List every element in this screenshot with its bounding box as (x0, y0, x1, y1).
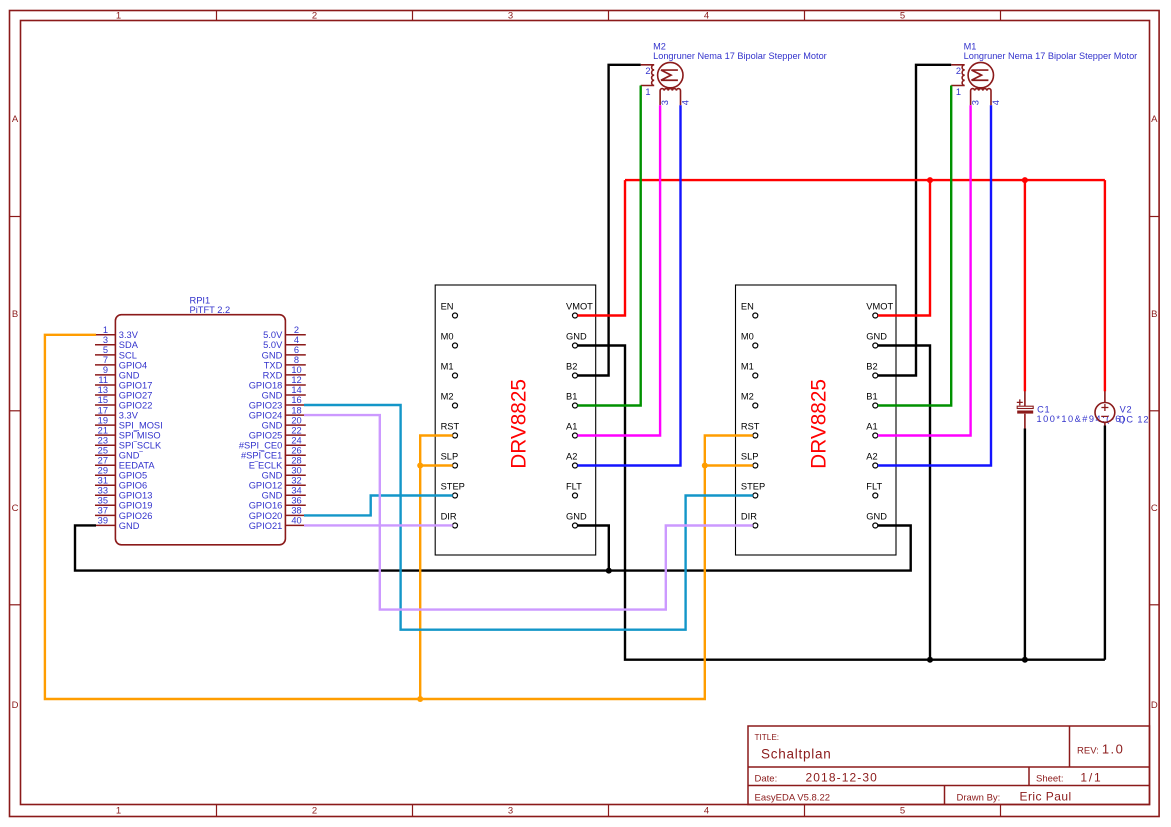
svg-text:32: 32 (291, 476, 301, 486)
wire black M2 pin2 to U1 B2 (578, 65, 641, 376)
junction GND net (606, 568, 612, 574)
svg-text:GPIO17: GPIO17 (119, 380, 153, 390)
svg-text:29: 29 (98, 465, 108, 475)
svg-text:38: 38 (291, 506, 301, 516)
voltage source V2 plus sign (1101, 404, 1108, 411)
IC U1 right pin circles (573, 313, 578, 528)
svg-text:1: 1 (116, 806, 121, 817)
junction GND rail at C1 drop (1022, 657, 1028, 663)
svg-text:7: 7 (103, 355, 108, 365)
frame row ticks (10, 217, 1160, 605)
svg-text:GND: GND (866, 512, 887, 522)
motor M1 winding B coil (971, 89, 991, 106)
svg-text:RXD: RXD (263, 370, 283, 380)
svg-text:12: 12 (291, 375, 301, 385)
svg-text:31: 31 (98, 476, 108, 486)
svg-text:A: A (12, 114, 19, 125)
svg-text:M1: M1 (741, 362, 754, 372)
svg-text:3: 3 (508, 806, 513, 817)
wire orange U1 riser to RST (420, 436, 453, 700)
wire magenta M1 pin3 to U2 A1 (878, 105, 971, 435)
wire black M1 pin2 to U2 B2 (878, 65, 951, 376)
svg-text:9: 9 (103, 365, 108, 375)
wire black U2 GND2 to bottom GND rail (878, 346, 930, 660)
svg-text:33: 33 (98, 486, 108, 496)
IC U2 left pin circles (753, 313, 758, 528)
junction orange at U1 SLP branch (417, 463, 423, 469)
wire red VMOT rail (625, 179, 1105, 181)
svg-text:GND: GND (262, 421, 283, 431)
svg-text:DIR: DIR (441, 512, 457, 522)
svg-text:#SPI_CE0: #SPI_CE0 (239, 441, 282, 451)
svg-text:C: C (12, 503, 19, 514)
svg-text:24: 24 (291, 435, 301, 445)
svg-text:5: 5 (900, 806, 905, 817)
motor M1 body circle (968, 62, 993, 87)
voltage source V2 body circle (1095, 403, 1115, 423)
svg-text:17: 17 (98, 405, 108, 415)
svg-text:26: 26 (291, 445, 301, 455)
wire red C1 positive riser (1024, 180, 1026, 391)
svg-text:M0: M0 (741, 332, 754, 342)
svg-text:TXD: TXD (264, 360, 283, 370)
svg-text:25: 25 (98, 445, 108, 455)
svg-text:2: 2 (312, 11, 317, 22)
svg-text:GPIO4: GPIO4 (119, 360, 147, 370)
svg-text:M2: M2 (441, 392, 454, 402)
svg-text:GND: GND (262, 491, 283, 501)
wire green M2 pin1 to U1 B1 (578, 86, 641, 406)
svg-text:DRV8825: DRV8825 (507, 379, 530, 469)
svg-text:5: 5 (103, 345, 108, 355)
svg-text:SLP: SLP (741, 452, 759, 462)
svg-text:GND: GND (566, 332, 587, 342)
svg-text:5.0V: 5.0V (263, 330, 283, 340)
junction VMOT rail at C1 riser (1022, 177, 1028, 183)
svg-text:A: A (1151, 114, 1158, 125)
frame column ticks (217, 11, 1001, 817)
svg-text:D: D (12, 700, 19, 711)
svg-text:B2: B2 (566, 362, 577, 372)
svg-text:B1: B1 (566, 392, 577, 402)
svg-text:3: 3 (103, 335, 108, 345)
svg-text:RST: RST (441, 422, 460, 432)
svg-text:EEDATA: EEDATA (119, 461, 156, 471)
svg-text:A1: A1 (566, 422, 577, 432)
svg-text:GND: GND (119, 370, 140, 380)
svg-text:B1: B1 (866, 392, 877, 402)
svg-text:13: 13 (98, 385, 108, 395)
voltage source V2 minus sign (1101, 415, 1108, 417)
IC U2 right pin circles (873, 313, 878, 528)
capacitor C1 pin stubs (1024, 391, 1026, 429)
svg-text:16: 16 (291, 395, 301, 405)
wire black GND RPI1 pin39 to U2 GND (75, 525, 911, 570)
IC RPI1 left pin names (119, 330, 163, 531)
wire magenta M2 pin3 to U1 A1 (578, 105, 661, 435)
svg-text:15: 15 (98, 395, 108, 405)
IC U2 right pin names (866, 302, 893, 522)
svg-text:A1: A1 (866, 422, 877, 432)
IC U2 left pin names (741, 302, 765, 522)
svg-text:E‾ECLK: E‾ECLK (249, 461, 283, 471)
svg-text:GPIO26: GPIO26 (119, 511, 153, 521)
svg-text:EasyEDA V5.8.22: EasyEDA V5.8.22 (755, 793, 831, 804)
svg-text:35: 35 (98, 496, 108, 506)
frame row labels (12, 114, 1159, 711)
svg-text:B: B (1151, 309, 1157, 320)
svg-text:6: 6 (294, 345, 299, 355)
IC U1 left pin names (441, 302, 465, 522)
svg-text:3.3V: 3.3V (119, 411, 139, 421)
wire black U1 GND pin to GND net (578, 526, 609, 571)
IC U2 body (736, 285, 897, 555)
svg-text:4: 4 (681, 100, 691, 105)
svg-text:DRV8825: DRV8825 (808, 379, 831, 469)
svg-text:FLT: FLT (566, 482, 582, 492)
svg-text:B: B (12, 309, 18, 320)
svg-text:SCL: SCL (119, 350, 137, 360)
svg-text:SPI_MOSI: SPI_MOSI (119, 421, 163, 431)
svg-text:M2: M2 (741, 392, 754, 402)
svg-text:M1: M1 (441, 362, 454, 372)
IC RPI1 right pin numbers (291, 325, 301, 526)
svg-text:14: 14 (291, 385, 301, 395)
svg-text:GND: GND (262, 390, 283, 400)
junction orange at U1 riser (417, 696, 423, 702)
svg-text:STEP: STEP (441, 482, 465, 492)
motor M1 winding A coil (951, 65, 965, 86)
svg-text:D: D (1151, 700, 1158, 711)
svg-text:EN: EN (441, 302, 454, 312)
svg-text:GPIO6: GPIO6 (119, 481, 147, 491)
wire cyan GPIO20 to U1 STEP (304, 496, 453, 516)
svg-text:Schaltplan: Schaltplan (761, 747, 832, 762)
voltage source V2 pin stubs (1104, 391, 1106, 426)
svg-text:36: 36 (291, 496, 301, 506)
wire green M1 pin1 to U2 B1 (878, 86, 951, 406)
svg-text:GND‾: GND‾ (119, 451, 144, 461)
svg-text:M2: M2 (653, 41, 666, 51)
svg-text:2: 2 (956, 66, 961, 76)
svg-text:GPIO27: GPIO27 (119, 390, 153, 400)
svg-text:21: 21 (98, 425, 108, 435)
svg-text:SDA: SDA (119, 340, 139, 350)
svg-text:19: 19 (98, 415, 108, 425)
svg-text:STEP: STEP (741, 482, 765, 492)
svg-text:GPIO21: GPIO21 (249, 521, 283, 531)
svg-text:SPI‾SCLK: SPI‾SCLK (119, 441, 162, 451)
junction orange at U2 SLP branch (702, 463, 708, 469)
svg-text:GND: GND (866, 332, 887, 342)
svg-text:23: 23 (98, 435, 108, 445)
IC RPI1 left pin numbers (98, 325, 108, 526)
svg-text:1: 1 (116, 11, 121, 22)
svg-text:3: 3 (971, 100, 981, 105)
IC RPI1 right pin stubs (285, 335, 305, 526)
capacitor C1 plates (1017, 406, 1033, 408)
svg-text:PiTFT 2.2: PiTFT 2.2 (190, 305, 231, 315)
wire blue M2 pin4 to U1 A2 (578, 105, 681, 465)
svg-text:GPIO5: GPIO5 (119, 471, 147, 481)
svg-text:1: 1 (645, 87, 650, 97)
svg-text:GPIO13: GPIO13 (119, 491, 153, 501)
svg-text:28: 28 (291, 455, 301, 465)
svg-text:8: 8 (294, 355, 299, 365)
svg-text:VMOT: VMOT (566, 302, 593, 312)
svg-text:10: 10 (291, 365, 301, 375)
svg-text:TITLE:: TITLE: (755, 733, 780, 742)
svg-text:2: 2 (645, 66, 650, 76)
svg-text:DIR: DIR (741, 512, 757, 522)
svg-text:Longruner Nema 17 Bipolar Step: Longruner Nema 17 Bipolar Stepper Motor (653, 51, 827, 61)
svg-text:GPIO12: GPIO12 (249, 481, 283, 491)
svg-text:Longruner Nema 17 Bipolar Step: Longruner Nema 17 Bipolar Stepper Motor (964, 51, 1138, 61)
svg-text:GPIO25: GPIO25 (249, 431, 283, 441)
svg-text:Date:2018-12-30: Date:2018-12-30 (755, 771, 878, 785)
svg-text:M1: M1 (964, 41, 977, 51)
IC RPI1 left pin stubs (95, 335, 115, 526)
svg-text:GND: GND (566, 512, 587, 522)
svg-text:GND: GND (262, 471, 283, 481)
junction GND rail at U2 drop (927, 657, 933, 663)
motor M2 body circle (658, 62, 683, 87)
IC U1 left pin circles (453, 313, 458, 528)
svg-text:VMOT: VMOT (866, 302, 893, 312)
IC U1 body (435, 285, 596, 555)
svg-text:SLP: SLP (441, 452, 459, 462)
IC RPI1 right pin names (239, 330, 283, 531)
svg-text:V2: V2 (1120, 405, 1133, 415)
svg-text:27: 27 (98, 455, 108, 465)
svg-text:FLT: FLT (866, 482, 882, 492)
svg-text:GPIO22: GPIO22 (119, 400, 153, 410)
svg-text:GND: GND (262, 350, 283, 360)
IC U1 right pin names (566, 302, 593, 522)
wire orange U1 SLP branch (420, 464, 453, 466)
svg-text:2: 2 (294, 325, 299, 335)
svg-text:C1: C1 (1037, 404, 1050, 414)
wire black C1 negative to GND rail (1024, 429, 1026, 660)
junction VMOT rail at U2 riser (927, 177, 933, 183)
svg-text:3: 3 (508, 11, 513, 22)
motor M2 winding A coil (641, 65, 655, 86)
svg-text:SPI‾MISO: SPI‾MISO (119, 431, 161, 441)
capacitor C1 plus sign (1017, 399, 1023, 405)
svg-text:4: 4 (294, 335, 299, 345)
svg-text:3: 3 (660, 100, 670, 105)
svg-text:34: 34 (291, 486, 301, 496)
title block box (748, 726, 1150, 805)
svg-text:11: 11 (98, 375, 108, 385)
svg-text:C: C (1151, 503, 1158, 514)
svg-text:DC 12: DC 12 (1119, 414, 1150, 424)
motor M1 M glyph (971, 70, 988, 80)
svg-text:4: 4 (991, 100, 1001, 105)
wire red V2 positive riser (1104, 180, 1106, 391)
motor M2 winding B coil (660, 89, 680, 106)
wire violet GPIO21 to U1 DIR (304, 524, 453, 526)
svg-text:EN: EN (741, 302, 754, 312)
wire cyan GPIO23 to U2 STEP (304, 405, 753, 630)
wire black U1 GND2 to bottom GND rail (578, 346, 1105, 660)
wire orange 3.3V RPI1 pin1 to U2 RST (45, 335, 753, 699)
svg-text:30: 30 (291, 465, 301, 475)
wire orange U2 SLP branch (705, 464, 753, 466)
svg-text:22: 22 (291, 425, 301, 435)
svg-text:5.0V: 5.0V (263, 340, 283, 350)
svg-text:#SPI‾CE1: #SPI‾CE1 (241, 451, 282, 461)
wire black V2 negative to GND rail (1104, 426, 1106, 660)
svg-text:A2: A2 (566, 452, 577, 462)
svg-text:1: 1 (956, 87, 961, 97)
svg-text:4: 4 (704, 11, 709, 22)
svg-text:A2: A2 (866, 452, 877, 462)
wire blue M1 pin4 to U2 A2 (878, 105, 991, 465)
svg-text:GPIO19: GPIO19 (119, 501, 153, 511)
svg-text:GND: GND (119, 521, 140, 531)
wire red U1 VMOT riser (578, 180, 626, 315)
svg-text:3.3V: 3.3V (119, 330, 139, 340)
svg-text:GPIO23: GPIO23 (249, 400, 283, 410)
motor M2 M glyph (661, 70, 678, 80)
svg-text:1: 1 (103, 325, 108, 335)
wire violet GPIO24 to U2 DIR (304, 415, 753, 609)
svg-text:4: 4 (704, 806, 709, 817)
svg-text:40: 40 (291, 516, 301, 526)
svg-text:GPIO16: GPIO16 (249, 501, 283, 511)
svg-text:GPIO20: GPIO20 (249, 511, 283, 521)
wire red U2 VMOT riser (878, 180, 930, 315)
svg-text:RPI1: RPI1 (190, 295, 211, 305)
svg-text:5: 5 (900, 11, 905, 22)
svg-text:2: 2 (312, 806, 317, 817)
svg-text:RST: RST (741, 422, 760, 432)
svg-text:GPIO18: GPIO18 (249, 380, 283, 390)
IC RPI1 body (115, 315, 285, 545)
svg-text:18: 18 (291, 405, 301, 415)
svg-text:20: 20 (291, 415, 301, 425)
svg-text:B2: B2 (866, 362, 877, 372)
frame column labels (116, 11, 905, 817)
svg-text:39: 39 (98, 516, 108, 526)
svg-text:M0: M0 (441, 332, 454, 342)
svg-text:GPIO24: GPIO24 (249, 411, 283, 421)
svg-text:37: 37 (98, 506, 108, 516)
